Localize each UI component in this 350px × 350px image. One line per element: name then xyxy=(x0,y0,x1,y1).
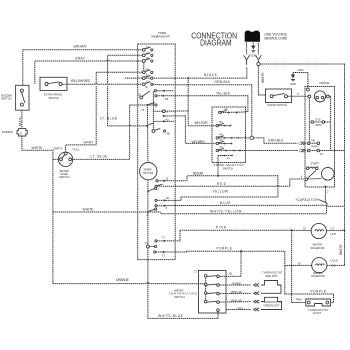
svg-text:MOTOR: MOTOR xyxy=(143,171,153,175)
wt switch contact row1 xyxy=(204,275,219,278)
svg-text:YEL-BLK: YEL-BLK xyxy=(216,91,231,95)
connector arrows row1 xyxy=(254,283,260,286)
svg-text:YELLOW: YELLOW xyxy=(213,190,229,194)
svg-text:20: 20 xyxy=(298,261,301,265)
wire black drop xyxy=(187,78,189,111)
wire white (to timer terminal 6) xyxy=(53,211,147,213)
node: neutral junction xyxy=(257,62,260,65)
hop orange over T4 riser xyxy=(147,282,149,285)
connector circle grn-blk xyxy=(250,136,253,139)
timer box xyxy=(138,44,176,260)
svg-text:7A RED: 7A RED xyxy=(232,281,242,285)
svg-text:RED DOT: RED DOT xyxy=(266,274,278,278)
timer contact 7 (red out) xyxy=(155,184,163,191)
svg-text:E: E xyxy=(20,131,22,135)
svg-text:WHITE: WHITE xyxy=(339,244,343,255)
svg-text:WATER: WATER xyxy=(313,271,322,275)
line voltage service cord plug xyxy=(245,31,260,42)
svg-text:L1: L1 xyxy=(146,51,149,55)
svg-text:PINK: PINK xyxy=(216,226,227,230)
svg-text:WHITE: WHITE xyxy=(32,146,44,150)
title CONNECTION DIAGRAM xyxy=(191,31,237,47)
junction on row 105 xyxy=(146,104,148,106)
svg-text:3A: 3A xyxy=(220,138,223,142)
svg-text:RPM: RPM xyxy=(316,123,323,127)
svg-text:T2: T2 xyxy=(162,254,166,258)
wire pink (down to thermostat) xyxy=(292,230,306,302)
svg-text:WH-PUR: WH-PUR xyxy=(195,121,209,125)
timer contact Y3 xyxy=(141,103,157,112)
svg-text:GND: GND xyxy=(290,82,296,86)
svg-text:BLUE: BLUE xyxy=(220,201,231,205)
wire white (buzzer switch to buzzer) xyxy=(21,110,23,128)
wire purple branch (to water temp switch 1B) xyxy=(219,251,241,276)
wire lt blue (water level to timer) xyxy=(72,105,147,159)
svg-text:YELLOW: YELLOW xyxy=(193,171,204,175)
wire white-yellow xyxy=(148,212,327,214)
svg-text:2B BLUE: 2B BLUE xyxy=(231,290,242,294)
wire brown xyxy=(23,50,143,86)
wire yellow (J2 to motor area riser) xyxy=(165,176,278,197)
timer contact 8 (blue out) xyxy=(155,205,168,211)
plug right prong wire xyxy=(257,43,259,55)
svg-text:A1: A1 xyxy=(146,45,150,49)
svg-text:YELLOW RED: YELLOW RED xyxy=(71,79,91,83)
wt switch contact row3 xyxy=(204,292,219,295)
wire to motor terminal 1 xyxy=(246,150,298,152)
junction black/wh-brn xyxy=(187,77,189,79)
wire white (down to door switch) xyxy=(258,66,265,95)
wire grn-blk to motor terminal 3 xyxy=(246,138,298,143)
svg-text:KNOB-PUSH OFF: KNOB-PUSH OFF xyxy=(152,35,171,39)
wire blue xyxy=(165,205,326,214)
wire wt row2 out (7A RED) xyxy=(219,284,251,286)
speed selector row 6A xyxy=(219,107,246,114)
thermostat green dot symbol xyxy=(261,297,282,309)
wire wh-brn (timer to speed selector) xyxy=(165,116,216,144)
wire pink to hot solenoid xyxy=(292,229,312,231)
svg-text:T1: T1 xyxy=(162,235,166,239)
timer contact R5 xyxy=(155,95,169,101)
timer bus x147.9 lower xyxy=(147,180,149,245)
speed selector row 5A xyxy=(216,120,231,127)
wire white-blue (T4 down) xyxy=(148,248,218,319)
svg-text:LT. BLUE: LT. BLUE xyxy=(100,116,118,120)
timer contact A1 (row1) xyxy=(142,45,152,51)
svg-text:2-1: 2-1 xyxy=(332,263,336,267)
door switch box xyxy=(266,89,292,103)
wire purple lower loop xyxy=(285,266,334,303)
wt switch contact row4 xyxy=(204,300,219,303)
svg-text:A2: A2 xyxy=(166,117,170,121)
wire wt row4 out (1B BLUE) xyxy=(219,301,251,304)
junction purple branch xyxy=(240,250,242,252)
hop red over yellow riser xyxy=(277,184,279,187)
wire wt bottom out (RED) xyxy=(226,309,251,311)
svg-text:EMPTY: EMPTY xyxy=(54,147,63,151)
timer contact L1 (row2) xyxy=(142,51,152,57)
svg-text:DIAGRAM: DIAGRAM xyxy=(200,39,232,48)
timer contact T4 xyxy=(144,242,156,248)
timer contact A2 xyxy=(153,117,174,122)
svg-text:WHITE-BLUE: WHITE-BLUE xyxy=(158,314,184,318)
svg-text:J2: J2 xyxy=(165,176,168,180)
thermostat e dot xyxy=(306,299,331,306)
svg-text:BUZZER: BUZZER xyxy=(2,130,13,134)
svg-text:1B BLUE: 1B BLUE xyxy=(231,298,242,302)
svg-text:Y1: Y1 xyxy=(146,80,150,84)
speed selector row 3A (wh-brn in) xyxy=(216,138,232,145)
timer junction 6 (white through) xyxy=(147,208,157,217)
timer contact 2R (row4) xyxy=(142,68,152,74)
svg-text:T4: T4 xyxy=(144,242,148,246)
timer contact below motor xyxy=(147,187,156,192)
wire yellow (speed selector bottom drop) xyxy=(217,156,219,176)
svg-text:2C: 2C xyxy=(320,152,323,156)
water solenoid hot xyxy=(311,223,326,238)
connector arrows motor 1 xyxy=(301,149,306,152)
wire yellow-red xyxy=(63,83,143,85)
svg-text:WHITE: WHITE xyxy=(18,117,22,126)
ground arrow symbol (cord) xyxy=(251,46,255,52)
buzzer switch box xyxy=(16,85,29,110)
wire cold solenoid to white xyxy=(327,230,345,265)
timer contact 3C (yellow2 out) xyxy=(155,196,170,201)
svg-text:WH-BRN: WH-BRN xyxy=(192,140,206,144)
svg-text:BROWN: BROWN xyxy=(74,45,88,49)
svg-text:SWITCH: SWITCH xyxy=(59,175,70,179)
plug left prong wire xyxy=(246,43,248,55)
timer contact above junction xyxy=(148,123,153,125)
junction white/hot solenoid xyxy=(344,229,346,231)
timer bus x147.9 upper xyxy=(146,105,149,162)
left spade terminal xyxy=(244,55,250,65)
motor left bus xyxy=(308,98,310,142)
svg-text:COLD: COLD xyxy=(331,259,339,263)
buzzer switch contacts xyxy=(20,89,23,92)
svg-text:BLACK: BLACK xyxy=(204,73,218,77)
motor main winding xyxy=(308,91,329,102)
speed selector row 1A xyxy=(218,155,233,160)
timer row5 stub xyxy=(125,77,143,79)
water solenoid cold xyxy=(312,258,327,273)
svg-text:LT. BLUE: LT. BLUE xyxy=(91,154,109,158)
timer bus row3-row4 xyxy=(143,62,145,71)
timer contact Y4 xyxy=(163,115,165,117)
connector arrows row3 xyxy=(254,300,260,303)
wire door switch to motor P xyxy=(288,95,309,97)
svg-text:1B: 1B xyxy=(146,56,149,60)
wire wh-pur (timer 3 to speed selector) xyxy=(165,111,215,126)
water level switch xyxy=(58,152,72,166)
svg-text:WATER: WATER xyxy=(313,242,322,246)
svg-text:ORANGE: ORANGE xyxy=(116,278,130,282)
connector arrows row2 xyxy=(254,292,260,295)
wt switch left bus xyxy=(205,276,207,302)
svg-text:DOOR SWITCH: DOOR SWITCH xyxy=(268,103,287,107)
timer junction lt-blue row xyxy=(146,125,148,127)
svg-text:2R: 2R xyxy=(146,68,149,72)
motor box xyxy=(305,87,335,188)
timer contact B1 xyxy=(138,85,174,99)
connector arrows motor 3 xyxy=(301,142,306,145)
svg-text:6A: 6A xyxy=(225,107,228,111)
water temperature switch box xyxy=(199,271,227,314)
svg-text:P: P xyxy=(297,92,299,96)
svg-text:SOLENOID: SOLENOID xyxy=(311,246,325,250)
junction pink xyxy=(291,229,293,231)
svg-text:1725: 1725 xyxy=(315,118,321,122)
hop yellow-red over gray2 xyxy=(95,83,97,86)
junction yellow xyxy=(217,175,219,177)
svg-text:Y3: Y3 xyxy=(141,108,145,112)
svg-text:GRAY: GRAY xyxy=(75,57,86,61)
timer contact T1 (pink out) xyxy=(155,235,166,242)
motor start winding contacts xyxy=(306,167,318,170)
door switch contacts xyxy=(270,95,273,98)
svg-text:HOT: HOT xyxy=(331,232,337,236)
svg-text:PURPLE: PURPLE xyxy=(311,290,327,294)
label LINE VOLTAGE SERVICE CORD xyxy=(264,33,288,41)
wt switch bottom terminal xyxy=(217,309,220,312)
timer contact 1B (row3) xyxy=(142,56,152,62)
wire lt blue (timer row2 loop) xyxy=(108,55,146,126)
svg-text:WHITE: WHITE xyxy=(261,72,265,83)
svg-text:THERMOSTAT: THERMOSTAT xyxy=(262,271,283,275)
timer motor xyxy=(140,163,157,180)
svg-text:PURPLE: PURPLE xyxy=(217,247,233,251)
wire pink (T1 to solenoid and thermostat) xyxy=(165,230,291,241)
svg-text:2-1: 2-1 xyxy=(331,226,335,230)
wire yel-blk (timer R5 to speed selector) xyxy=(157,96,248,112)
svg-text:1B: 1B xyxy=(229,272,232,276)
svg-text:TIMER: TIMER xyxy=(158,31,166,35)
speed selector row 4A (grn-blk out) xyxy=(216,132,245,139)
svg-text:WHITE-YELLOW: WHITE-YELLOW xyxy=(210,209,242,213)
wire white (buzzer to water level switch) xyxy=(22,136,59,159)
wire purple to cold solenoid xyxy=(285,264,312,266)
connector arrows row4 xyxy=(254,308,260,311)
motor bottom terminal 2 xyxy=(324,186,326,188)
wire white (down left side) xyxy=(52,159,54,283)
svg-text:SWITCH: SWITCH xyxy=(174,295,185,299)
ground symbol (motor) xyxy=(290,73,296,86)
plug middle prong wire xyxy=(252,43,254,46)
svg-text:22: 22 xyxy=(303,227,306,231)
svg-text:RED: RED xyxy=(217,182,227,186)
speed selector row 2A (to motor 1) xyxy=(216,145,245,152)
motor contacts row 2C xyxy=(307,149,344,156)
svg-text:WHITE: WHITE xyxy=(83,207,95,211)
svg-text:1T: 1T xyxy=(194,269,197,273)
svg-text:START: START xyxy=(311,162,320,166)
right spade terminal xyxy=(256,55,262,62)
thermostat red dot symbol xyxy=(261,281,281,294)
svg-text:GRN-BLK: GRN-BLK xyxy=(215,80,231,84)
motor terminal 6 contact xyxy=(305,178,308,181)
timer contact 4B xyxy=(152,129,170,136)
buzzer xyxy=(17,129,27,136)
timer contact T2 (purple out) xyxy=(154,251,166,258)
wire yellow2 (3C to yellow riser) xyxy=(166,197,278,200)
motor contacts 740 rpm xyxy=(307,138,319,148)
extra rinse switch contacts xyxy=(45,83,48,86)
svg-text:FULL: FULL xyxy=(73,148,80,152)
timer contact 3 xyxy=(153,110,168,114)
hop of lt-blue over water-level riser xyxy=(128,124,130,127)
wire purple xyxy=(165,251,285,265)
svg-text:2A: 2A xyxy=(220,145,223,149)
svg-text:SOLENOID: SOLENOID xyxy=(311,274,325,278)
svg-text:GRN-BLK: GRN-BLK xyxy=(268,139,284,143)
wire wt row3 out (2B BLUE) xyxy=(219,292,251,294)
svg-text:RED: RED xyxy=(238,306,244,310)
hop of row2 wire over yellow-red xyxy=(107,83,109,86)
svg-text:(1): (1) xyxy=(145,85,148,89)
svg-text:4A: 4A xyxy=(220,132,223,136)
svg-text:R5: R5 xyxy=(165,97,169,101)
svg-text:3C: 3C xyxy=(166,196,169,200)
svg-text:SWITCH: SWITCH xyxy=(223,166,234,170)
svg-text:THERMOSTAT: THERMOSTAT xyxy=(308,308,329,312)
wire white (top run to right side) xyxy=(260,64,344,229)
svg-text:RPM: RPM xyxy=(312,145,319,149)
timer contact J2 xyxy=(156,176,169,182)
wt switch contact row2 xyxy=(204,283,219,286)
wire black into timer row5 xyxy=(145,77,188,79)
motor top terminal xyxy=(307,88,310,91)
svg-text:SWITCH: SWITCH xyxy=(49,96,60,100)
hop over lt-blue drop xyxy=(107,59,109,62)
svg-text:1A: 1A xyxy=(227,156,230,160)
motor right bus xyxy=(329,96,330,150)
svg-text:GRN: GRN xyxy=(298,68,304,72)
timer bus x153 xyxy=(152,92,154,132)
wire red (timer to motor terminal 6) xyxy=(157,179,304,186)
svg-text:B1: B1 xyxy=(138,92,142,96)
wire hot solenoid to white xyxy=(326,229,344,231)
wire grn (motor to ground) xyxy=(293,73,308,88)
svg-text:PINK: PINK xyxy=(296,297,302,301)
timer contact R1 (row5) xyxy=(142,73,152,79)
svg-text:SWITCH: SWITCH xyxy=(1,97,12,101)
svg-text:TIMER: TIMER xyxy=(143,167,151,171)
timer contact Y1 (row6) xyxy=(142,80,152,86)
svg-text:MOTOR: MOTOR xyxy=(320,81,330,85)
wire grn-blk (timer row6 to motor connector) xyxy=(153,84,252,136)
speed selector outer box xyxy=(212,107,246,163)
wire gray (to timer row3) xyxy=(35,61,143,84)
motor start switch xyxy=(308,168,335,181)
wire gray2 (water level to timer row4) xyxy=(66,72,143,152)
wire capacitor loop xyxy=(325,188,344,207)
svg-text:740: 740 xyxy=(311,138,316,142)
svg-text:R1: R1 xyxy=(146,73,150,77)
wire lt-blue row inside timer xyxy=(146,104,155,106)
label CAPACITOR with leader xyxy=(296,198,328,203)
svg-text:5A: 5A xyxy=(220,120,223,124)
svg-text:SERVICE CORD: SERVICE CORD xyxy=(264,36,288,40)
extra rinse switch box xyxy=(40,77,67,90)
svg-text:*CAPACITOR: *CAPACITOR xyxy=(296,198,319,202)
motor contacts 1725 rpm xyxy=(311,118,331,127)
svg-text:4B: 4B xyxy=(167,132,170,136)
wire black (left prong down) xyxy=(190,68,247,79)
svg-text:E DOT: E DOT xyxy=(313,311,322,315)
svg-text:GREEN DOT: GREEN DOT xyxy=(264,303,280,307)
svg-text:GRAY: GRAY xyxy=(84,141,95,145)
wire orange xyxy=(53,283,205,285)
